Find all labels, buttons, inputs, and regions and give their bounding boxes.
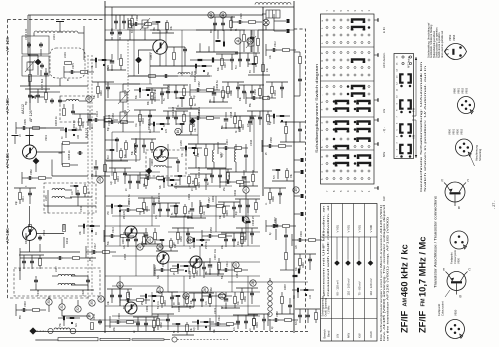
wire y60 row: [190, 59, 230, 61]
value label left-8: [79, 205, 83, 212]
coil L959: [235, 150, 236, 162]
capacitor C901: [27, 42, 31, 47]
svg-text:V950: V950: [454, 309, 458, 316]
wire mid h8: [168, 107, 232, 109]
diode AA112 triangle: [28, 95, 44, 99]
svg-text:R936 15k: R936 15k: [197, 106, 201, 118]
svg-text:141: 141: [157, 300, 160, 305]
component cluster m6: [190, 64, 212, 75]
svg-text:Farbpunkt: Farbpunkt: [437, 304, 441, 316]
capacitor C917: [57, 256, 62, 260]
wire mid h11: [188, 143, 226, 145]
svg-text:48: 48: [174, 242, 176, 245]
component cluster m67: [156, 292, 178, 309]
svg-text:58: 58: [208, 182, 210, 185]
schematic dashed border bottom: [10, 297, 90, 299]
svg-text:C954: C954: [228, 173, 231, 179]
switch position note: [419, 61, 427, 192]
value label mid-22: [213, 307, 217, 314]
crystal filter block: [262, 10, 280, 18]
capacitor C920: [86, 278, 90, 283]
svg-text:when used as portable set: when used as portable set: [441, 30, 444, 58]
dashed section divider 0: [87, 55, 89, 300]
svg-text:L905: L905: [44, 195, 48, 201]
svg-text:Gezeichnete Schalterstellung:: Gezeichnete Schalterstellung: U/Automati…: [419, 61, 423, 192]
component cluster m98: [266, 82, 288, 99]
svg-text:25n: 25n: [224, 186, 226, 191]
svg-text:R959: R959: [180, 236, 183, 242]
svg-text:E: E: [443, 268, 445, 272]
svg-text:95: 95: [174, 272, 176, 275]
value label mid-12: [157, 192, 161, 204]
component cluster m84: [74, 114, 96, 131]
component cluster m49: [235, 199, 260, 215]
svg-text:R933: R933: [142, 118, 145, 124]
capacitor C902: [39, 42, 43, 47]
svg-text:R905: R905: [82, 122, 85, 128]
svg-text:52k: 52k: [194, 122, 196, 127]
svg-text:C949: C949: [24, 301, 27, 307]
wire right col links: [245, 176, 247, 240]
wire fm mid links: [196, 30, 245, 52]
value label mid-0: [123, 89, 127, 96]
svg-text:47n: 47n: [234, 326, 236, 331]
svg-text:V 900: V 900: [369, 225, 373, 233]
component cluster m74: [133, 317, 158, 333]
transformer mid dashed box: [146, 150, 186, 176]
svg-text:9p: 9p: [134, 330, 136, 333]
svg-text:R928: R928: [242, 124, 245, 130]
value label mid-18: [235, 272, 239, 278]
svg-text:Schaltwegdiagramm/ Switch diag: Schaltwegdiagramm/ Switch diagram: [315, 64, 319, 153]
test point 21: [243, 187, 249, 193]
value label left-13: [36, 289, 40, 296]
svg-text:R963: R963: [164, 300, 167, 306]
svg-text:C944: C944: [249, 139, 253, 146]
resistor R938: [125, 143, 128, 150]
wire mid row2: [188, 144, 226, 168]
svg-text:C: C: [467, 179, 470, 183]
wire bottom ground rail: [33, 331, 310, 333]
component cluster m1: [128, 15, 158, 33]
switch label KW: [374, 186, 386, 201]
switch label MW: [374, 142, 386, 157]
svg-text:13: 13: [397, 75, 399, 78]
svg-text:13: 13: [209, 13, 213, 17]
svg-text:600: 600: [132, 28, 134, 33]
svg-text:R942: R942: [233, 189, 237, 196]
svg-text:V902: V902: [461, 87, 465, 94]
wire mid v11: [197, 118, 199, 144]
svg-text:98k: 98k: [144, 182, 146, 187]
resistor R941: [205, 149, 208, 156]
IF transformer box 3 (dashed): [14, 268, 100, 296]
svg-text:C912: C912: [274, 41, 277, 47]
component cluster m54: [172, 228, 194, 245]
component cluster m89: [19, 255, 44, 271]
svg-text:C957: C957: [208, 197, 211, 203]
osc table header gemessen: [322, 204, 331, 296]
svg-text:3: 3: [321, 101, 324, 103]
svg-text:20: 20: [98, 178, 102, 182]
transistor symbol 1: [441, 179, 469, 211]
test point circle 33: [48, 328, 53, 333]
label AF106 (stage 3): [5, 153, 10, 168]
svg-text:-: -: [321, 140, 324, 141]
resistor R970: [299, 57, 302, 64]
value label left-4: [72, 120, 76, 130]
svg-text:f 1 MHz: f 1 MHz: [327, 305, 330, 314]
component cluster m38: [207, 169, 232, 185]
svg-text:C946 25: C946 25: [251, 216, 255, 226]
svg-text:V960: V960: [453, 87, 457, 94]
svg-text:C950: C950: [123, 89, 127, 96]
svg-text:23: 23: [87, 97, 91, 101]
wire right col3: [294, 160, 300, 214]
component cluster m27: [247, 111, 272, 127]
svg-text:V904: V904: [121, 237, 125, 244]
wire mid h24: [168, 291, 260, 293]
wire mid h0: [105, 29, 294, 31]
resistor R960: [281, 297, 284, 304]
value label mid-10: [249, 139, 253, 146]
value label mid-26: [197, 106, 201, 118]
svg-text:R964: R964: [100, 90, 103, 96]
electrolytic C976: [274, 224, 278, 227]
svg-text:R943: R943: [117, 176, 120, 182]
svg-text:2: 2: [321, 129, 324, 131]
svg-text:R963: R963: [211, 195, 215, 202]
diamond diode AA112: [35, 59, 42, 66]
svg-text:R965 4k7: R965 4k7: [153, 264, 157, 276]
wire stage4 row: [20, 248, 96, 280]
wire top rail 1: [105, 6, 294, 8]
resistor R930: [129, 21, 132, 28]
svg-text:510: 510: [236, 64, 238, 69]
component cluster m79: [233, 315, 258, 331]
coil L953: [135, 143, 137, 155]
test point 14: [220, 12, 226, 18]
wire mid h26: [112, 315, 260, 317]
value label mid-24: [233, 189, 237, 196]
coil L907b: [58, 283, 75, 285]
svg-text:1: 1: [321, 42, 324, 44]
wire mid v17: [215, 196, 217, 232]
svg-text:Farbpunkt: Farbpunkt: [450, 252, 454, 264]
svg-text:140: 140: [309, 294, 312, 299]
svg-text:58p: 58p: [26, 100, 28, 105]
component cluster m10: [134, 88, 156, 99]
label AF106 (stage 4): [5, 228, 10, 243]
test point 12: [247, 38, 253, 44]
svg-text:B: B: [459, 295, 461, 299]
component cluster m44: [155, 203, 180, 219]
svg-text:UKW: UKW: [369, 331, 373, 338]
svg-text:120: 120: [296, 244, 298, 249]
resistor R973: [285, 253, 288, 260]
svg-text:R979: R979: [244, 236, 247, 242]
wire mid v3: [165, 22, 167, 66]
svg-text:AF 126: AF 126: [29, 110, 33, 122]
component cluster m106: [292, 288, 314, 299]
test point b3: [117, 282, 123, 288]
test point b8: [250, 280, 256, 286]
svg-text:208: 208: [285, 120, 288, 125]
resistor R902: [65, 62, 72, 65]
wire vertical bus A (x=105): [104, 1, 106, 333]
svg-text:Switch shown in position: U/ A: Switch shown in position: U/ Automat. ou…: [423, 65, 427, 192]
svg-text:7: 7: [325, 190, 329, 192]
component cluster m7: [216, 54, 238, 71]
component cluster m82: [16, 119, 46, 137]
colour point label 1: [450, 250, 461, 264]
coil L907a: [58, 274, 75, 276]
pinout labels V900 group: [448, 128, 464, 135]
svg-text:V901: V901: [44, 134, 48, 141]
terminal row right: [301, 158, 304, 216]
svg-text:2: 2: [397, 148, 399, 150]
component cluster m9: [248, 62, 270, 75]
svg-text:R933: R933: [274, 90, 277, 96]
svg-text:54k: 54k: [132, 150, 134, 155]
coil L957: [213, 150, 215, 162]
svg-text:6: 6: [397, 122, 399, 124]
svg-text:C924: C924: [240, 13, 243, 19]
svg-text:85k: 85k: [250, 102, 252, 107]
wire vertical bus C (x=294): [293, 1, 295, 333]
svg-text:32k: 32k: [160, 184, 162, 189]
wire mid h12: [105, 159, 140, 161]
svg-text:R977: R977: [224, 62, 227, 68]
svg-text:V954: V954: [452, 34, 456, 41]
svg-text:19: 19: [250, 328, 252, 331]
svg-text:80: 80: [176, 182, 178, 185]
switch table column numbers bottom: [325, 190, 371, 192]
svg-text:V902: V902: [42, 229, 46, 236]
blob contact b: [223, 42, 225, 47]
osc table header Bereich: [323, 329, 331, 339]
component cluster m68: [172, 294, 194, 307]
svg-text:110: 110: [92, 125, 94, 129]
svg-text:2: 2: [321, 171, 324, 173]
label AF185 (stage 2): [5, 98, 10, 113]
wire mid h16: [112, 215, 260, 217]
svg-text:93k: 93k: [190, 304, 192, 309]
capacitor C906: [50, 98, 54, 103]
value label mid-14: [211, 195, 215, 202]
svg-text:ZF/IF: ZF/IF: [400, 310, 410, 333]
svg-text:R903: R903: [146, 206, 149, 212]
capacitor C915: [38, 235, 42, 240]
svg-text:225: 225: [123, 210, 126, 215]
component cluster m96: [58, 316, 80, 327]
component cluster m12: [163, 85, 188, 101]
AM range arrow: [412, 120, 418, 158]
resistor R908: [63, 164, 70, 167]
svg-text:1: 1: [321, 86, 324, 88]
wire mid h23: [112, 285, 160, 287]
svg-text:329: 329: [107, 64, 110, 69]
value label left-5: [44, 134, 48, 141]
svg-text:6: 6: [332, 10, 336, 12]
wire box1 internals: [20, 26, 88, 86]
svg-text:8: 8: [321, 67, 324, 69]
test point c2: [157, 244, 163, 250]
coil L905b: [52, 196, 65, 198]
wire antenna feed line: [35, 339, 58, 341]
value label mid-13: [187, 193, 191, 200]
svg-text:R941: R941: [22, 196, 25, 202]
component cluster m85: [22, 169, 52, 187]
resistor R940: [195, 149, 198, 156]
transistor V902 (AF106): [23, 227, 37, 241]
component cluster m0: [111, 15, 136, 31]
capacitor C921: [98, 319, 102, 324]
component cluster m40: [239, 170, 258, 187]
component cluster m37: [190, 174, 212, 191]
svg-text:610: 610: [108, 154, 110, 159]
FM range arrow: [412, 57, 418, 116]
component cluster m101: [272, 168, 294, 181]
svg-text:C913: C913: [79, 205, 83, 212]
label L903: [63, 52, 67, 58]
wire mid v6: [239, 30, 241, 60]
blob contact d: [212, 58, 214, 63]
svg-text:54k: 54k: [94, 94, 96, 99]
svg-text:27: 27: [220, 294, 224, 298]
svg-text:20: 20: [126, 188, 128, 191]
osc table row LW: [334, 225, 340, 338]
svg-text:Die Schwingspannungen sind vom: Die Schwingspannungen sind vom Misch-tra…: [379, 205, 383, 341]
wire dashed link to ferrite: [37, 330, 46, 332]
svg-text:75 - 80 mV: 75 - 80 mV: [357, 281, 361, 295]
wire fm bias: [150, 47, 200, 66]
svg-text:38: 38: [174, 302, 176, 305]
value label mid-21: [177, 302, 181, 312]
component cluster m69: [189, 293, 214, 309]
svg-text:V902: V902: [460, 128, 464, 135]
coil column L961: [268, 281, 272, 317]
svg-text:4: 4: [346, 190, 350, 192]
component cluster m77: [192, 320, 214, 331]
capacitor C906b: [58, 98, 62, 103]
svg-text:R938: R938: [230, 90, 233, 96]
component cluster m3: [210, 17, 235, 33]
svg-text:Screening: Screening: [478, 148, 482, 161]
test point circle 36: [98, 296, 104, 302]
svg-text:R932: R932: [160, 322, 163, 328]
wire mid v27: [247, 276, 249, 316]
component cluster m87: [14, 188, 36, 205]
svg-text:9: 9: [321, 52, 324, 54]
component cluster m29: [131, 139, 156, 155]
component cluster m90: [86, 243, 116, 261]
test point circle 34: [70, 328, 76, 334]
svg-text:14k: 14k: [194, 127, 197, 132]
svg-text:850: 850: [20, 314, 22, 319]
component cluster m55: [188, 238, 210, 249]
input filter box A: [22, 36, 49, 54]
component cluster m36: [174, 174, 196, 187]
value label left-1: [52, 34, 56, 40]
svg-text:R940 1k2: R940 1k2: [197, 166, 201, 178]
svg-text:84p: 84p: [108, 126, 110, 131]
FM box top internals wire: [112, 7, 120, 30]
svg-text:V961: V961: [457, 87, 461, 94]
wire mid h1: [105, 39, 162, 41]
diamond diode at V900 emitter: [146, 168, 152, 174]
pinout V960 group: [458, 97, 475, 114]
svg-text:C967 10n: C967 10n: [213, 248, 217, 260]
svg-text:measured with UHF millivoltm.: measured with UHF millivoltm. at: [326, 205, 330, 297]
svg-text:21: 21: [244, 188, 248, 192]
trap circuit box: [60, 96, 90, 122]
component cluster m104: [292, 231, 322, 249]
label V960: [187, 267, 191, 274]
wire mid h15: [105, 195, 260, 197]
svg-text:C969: C969: [145, 305, 149, 312]
switch table rows: [321, 19, 371, 180]
svg-text:48k: 48k: [90, 256, 92, 261]
wire right top links: [244, 30, 252, 52]
svg-text:V 901: V 901: [346, 225, 350, 233]
value label left-7: [44, 195, 48, 201]
svg-text:R905 1k: R905 1k: [54, 116, 58, 126]
svg-text:5: 5: [339, 190, 343, 192]
value label left-15: [92, 313, 96, 320]
component cluster m61: [188, 262, 210, 279]
value label mid-3: [193, 70, 197, 82]
svg-text:24n: 24n: [222, 244, 224, 249]
svg-text:9k: 9k: [88, 191, 91, 194]
svg-text:C959: C959: [270, 137, 273, 143]
svg-text:C910: C910: [112, 227, 115, 233]
pinout V950 b: [446, 320, 465, 339]
svg-text:V 901: V 901: [357, 225, 361, 233]
test point b7: [219, 293, 225, 299]
svg-text:32: 32: [76, 307, 80, 311]
svg-text:17n: 17n: [206, 300, 208, 305]
resistor R936: [243, 35, 246, 42]
svg-text:28n: 28n: [114, 326, 116, 331]
component cluster m47: [200, 197, 230, 215]
value label left-12: [54, 266, 58, 272]
svg-text:12: 12: [248, 39, 252, 43]
svg-text:60p: 60p: [194, 94, 196, 99]
svg-text:L957: L957: [219, 152, 223, 158]
value label left-6: [67, 150, 71, 160]
capacitor C931: [118, 30, 122, 35]
svg-text:23: 23: [118, 283, 122, 287]
svg-text:19n: 19n: [204, 210, 206, 215]
svg-text:Switch shown in position: Switch shown in position: [438, 32, 441, 58]
wire mid h22: [105, 275, 260, 277]
component cluster m2: [152, 20, 174, 33]
blob contact c: [198, 59, 203, 61]
test point circle 32: [75, 306, 81, 312]
osc coil box (dashed): [50, 48, 85, 78]
blob contact f: [293, 269, 301, 278]
blob contact e: [242, 217, 251, 224]
wire mid h10: [112, 131, 160, 133]
svg-text:C931: C931: [128, 291, 131, 297]
wire mid h3: [150, 65, 200, 67]
svg-text:AF 126: AF 126: [5, 37, 10, 52]
svg-text:R932 1k8: R932 1k8: [171, 106, 175, 118]
svg-text:27n: 27n: [156, 214, 158, 219]
value label mid-15: [123, 253, 127, 260]
svg-text:L959: L959: [237, 126, 241, 132]
